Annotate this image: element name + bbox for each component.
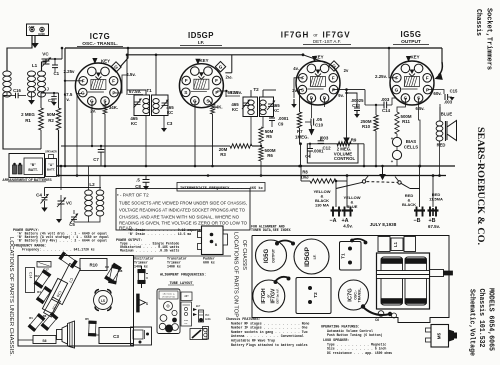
svg-text:130 MA: 130 MA (315, 203, 329, 208)
svg-text:TUBE SOCKETS ARE VIEWED FROM U: TUBE SOCKETS ARE VIEWED FROM UNDER SIDE … (119, 201, 247, 206)
svg-text:F: F (185, 78, 188, 83)
svg-text:R2: R2 (48, 118, 54, 123)
svg-text:or: or (313, 33, 318, 39)
svg-text:6.5v.: 6.5v. (415, 106, 424, 111)
svg-text:G: G (81, 90, 85, 95)
part R3 cyl (104, 263, 121, 283)
svg-text:I.F.: I.F. (313, 254, 317, 259)
trimmer C6 top view (378, 311, 384, 317)
svg-text:ID5GP: ID5GP (188, 31, 214, 40)
svg-text:S6: S6 (42, 339, 46, 343)
part R5b cyl (88, 321, 96, 336)
svg-text:C14: C14 (382, 108, 391, 113)
parts box (18, 256, 134, 347)
part C10b (42, 278, 67, 313)
wire R2 leads (58, 93, 60, 108)
part C3 big (99, 328, 134, 344)
svg-text:BATT.: BATT. (47, 168, 55, 172)
wire ID5GP bottom (194, 101, 196, 167)
svg-text:'B' Battery (dry 45v) . . . :: 'B' Battery (dry 45v) . . . : 2 - 6644 o… (17, 238, 107, 242)
oscillator trimmer icon (141, 266, 143, 270)
svg-text:"A": "A" (48, 163, 54, 167)
svg-text:R10: R10 (362, 124, 371, 129)
svg-text:R1: R1 (29, 316, 33, 320)
wire grid line IC7G (120, 48, 128, 67)
svg-text:L2: L2 (89, 182, 95, 187)
svg-text:LS: LS (101, 299, 105, 303)
svg-text:OSC: OSC (205, 314, 210, 317)
svg-text:READING IS GIVEN, THE VOLTAGE: READING IS GIVEN, THE VOLTAGE IS ZERO OR… (119, 220, 247, 225)
capacitor C9 (269, 117, 275, 119)
svg-text:'B' Drain . . . . . . . . 13.5: 'B' Drain . . . . . . . . 13.5 ma (128, 232, 191, 236)
tube IG5G top view (256, 240, 287, 271)
node vc (54, 58, 56, 60)
coil L1 osc winding (38, 71, 46, 76)
svg-text:2 MEG: 2 MEG (21, 112, 35, 117)
svg-text:C15: C15 (450, 89, 458, 94)
svg-text:• - PART OF T2: • - PART OF T2 (117, 193, 149, 198)
svg-text:2v.: 2v. (90, 109, 96, 114)
svg-text:.5: .5 (136, 178, 140, 183)
terminal +A (342, 209, 353, 211)
svg-text:KEY: KEY (314, 55, 323, 60)
wire osc top (42, 62, 47, 71)
resistor R3 (230, 144, 252, 148)
svg-text:ALIGNMENT FREQUENCIES:: ALIGNMENT FREQUENCIES: (160, 274, 206, 278)
wire T1 bottoms (145, 116, 147, 147)
svg-text:R10: R10 (89, 263, 98, 268)
resistor R2 (56, 108, 61, 130)
wire screen bus (127, 54, 303, 56)
svg-text:F: F (426, 76, 429, 81)
battery box (9, 154, 45, 178)
part R2 cyl (34, 270, 51, 289)
svg-text:ANT: ANT (28, 25, 34, 29)
bus chassis y166 (57, 165, 455, 167)
junction dots bus y166 (64, 165, 67, 168)
svg-text:L1: L1 (393, 241, 398, 247)
resistor 34K ID5GP (211, 104, 215, 114)
ground L1 (31, 96, 33, 101)
svg-text:TUBE LAYOUT: TUBE LAYOUT (169, 282, 192, 286)
wire IF7GH grid riser (302, 53, 305, 56)
wire T2 tops (250, 90, 252, 97)
svg-text:JULY 8,1938: JULY 8,1938 (370, 222, 397, 227)
svg-text:G: G (395, 87, 399, 92)
coil L1 secondary (28, 71, 36, 76)
svg-text:60v.: 60v. (433, 91, 441, 96)
wire right riser (454, 48, 456, 166)
alignment table rule (133, 255, 231, 257)
junction dots bus y175 (57, 174, 60, 177)
svg-text:C3: C3 (113, 334, 119, 339)
notes box (116, 189, 250, 231)
svg-text:KEY: KEY (410, 55, 419, 60)
svg-text:DET-1st A.F.: DET-1st A.F. (275, 288, 279, 303)
IF transformer T2 (243, 97, 258, 117)
svg-text:BLUE: BLUE (347, 204, 358, 209)
svg-text:VC: VC (42, 52, 49, 57)
output transformer coil (436, 121, 443, 126)
svg-text:2.25v.: 2.25v. (375, 74, 387, 79)
wire to output transformer (433, 89, 440, 91)
resistor R7 (297, 112, 301, 128)
svg-text:IG5G: IG5G (400, 30, 421, 39)
svg-text:GND: GND (38, 32, 46, 36)
capacitor C10 (310, 119, 312, 126)
part C7 (52, 263, 81, 304)
wire IF7GH S down (300, 90, 303, 112)
part R6 cyl (41, 312, 58, 330)
svg-text:KC: KC (167, 110, 174, 115)
svg-text:OF CHASSIS: OF CHASSIS (241, 240, 247, 270)
layout component dark (199, 310, 204, 322)
svg-text:4v.: 4v. (293, 66, 299, 71)
svg-text:IF7GH/IF7GV: IF7GH/IF7GV (162, 296, 176, 299)
wire IG5G left (389, 48, 397, 78)
capacitor C11 (307, 148, 313, 150)
trimmer T2 left (243, 102, 249, 104)
svg-text:R11: R11 (402, 119, 410, 124)
svg-text:2ω.: 2ω. (225, 75, 232, 80)
node c7 (91, 145, 93, 147)
svg-text:KC: KC (232, 107, 239, 112)
trimmer T1 left (135, 101, 141, 103)
wire -B lead (410, 189, 420, 208)
svg-text:F: F (332, 76, 335, 81)
svg-text:C7: C7 (93, 157, 99, 162)
wire C14 to IG5G (392, 98, 396, 105)
wire IC7G left plate (65, 80, 83, 82)
bias cells (392, 137, 401, 146)
terminal +B (428, 209, 439, 211)
tube layout tube 2 (160, 315, 167, 322)
svg-text:1400 kc: 1400 kc (167, 265, 181, 269)
svg-text:C13: C13 (352, 103, 360, 108)
IF transformer T1 (134, 95, 150, 116)
wire IF7GH top lead (275, 277, 289, 282)
part horn (57, 330, 63, 340)
svg-text:KC: KC (185, 322, 188, 325)
wire antenna lead (7, 36, 32, 72)
resistor R1 (39, 108, 44, 130)
wire blue lead (428, 96, 440, 104)
wire chassis top (362, 306, 390, 315)
ground VC2 (60, 204, 62, 219)
svg-text:R1: R1 (25, 118, 31, 123)
svg-text:2v: 2v (344, 68, 349, 73)
svg-text:IF7GH: IF7GH (281, 31, 310, 40)
svg-text:CONTROL: CONTROL (334, 156, 356, 161)
svg-text:VOLTAGE READINGS AT INDICATED: VOLTAGE READINGS AT INDICATED SOCKET PRO… (119, 208, 245, 213)
wire R5R6 (260, 143, 262, 147)
svg-text:M5: M5 (437, 332, 442, 339)
svg-text:50M: 50M (47, 112, 56, 117)
node T2 grid (225, 90, 227, 92)
tube IG5G (390, 61, 434, 105)
svg-text:4.5v.: 4.5v. (343, 224, 352, 229)
svg-text:C16: C16 (13, 88, 21, 93)
svg-text:F: F (215, 78, 218, 83)
svg-text:11.5MA: 11.5MA (429, 197, 443, 202)
svg-text:.05: .05 (316, 117, 323, 122)
svg-text:R4: R4 (37, 290, 41, 294)
capacitor C16 (15, 93, 17, 99)
part R1 cyl (59, 252, 78, 268)
svg-text:TRANSL.: TRANSL. (358, 288, 362, 303)
svg-text:Push Button Tuning (6 button): Push Button Tuning (6 button) (327, 333, 383, 337)
chassis top box (252, 236, 449, 323)
gang box in layout (181, 292, 192, 301)
svg-text:GANG: GANG (205, 318, 211, 321)
svg-text:+: + (391, 159, 394, 164)
svg-text:DC resistance . . . app. 1500: DC resistance . . . app. 1500 ohms (327, 351, 392, 355)
wire IG5G S down (419, 98, 420, 166)
svg-text:TUNER DATA,SEE INDEX: TUNER DATA,SEE INDEX (251, 228, 291, 232)
svg-text:C1: C1 (54, 71, 60, 76)
svg-text:BLACK: BLACK (402, 202, 416, 207)
plate feed arrow IG5G (439, 62, 443, 75)
resistor R10 (374, 115, 378, 131)
svg-text:C6: C6 (375, 318, 379, 322)
tube layout box (157, 289, 180, 334)
layout side arrows (193, 308, 197, 311)
speaker M5 box (431, 325, 449, 348)
oscillator coil L2 (85, 190, 93, 195)
wire IF7GH left (294, 78, 303, 98)
grid cap diamond IF7GH (329, 61, 339, 71)
transformer T2 top view (296, 278, 331, 314)
svg-text:67.5v: 67.5v (228, 90, 240, 95)
part R8 cyl (108, 265, 119, 284)
svg-text:C9: C9 (278, 122, 284, 127)
svg-text:SPEAKER: SPEAKER (45, 151, 57, 154)
svg-text:ARRANGEMENT OF BATTERIES: ARRANGEMENT OF BATTERIES (2, 178, 51, 182)
svg-text:MODELS 6054,6065: MODELS 6054,6065 (487, 288, 495, 351)
wire VC/C1 top (42, 58, 63, 60)
svg-text:R6: R6 (267, 153, 273, 158)
svg-text:R3: R3 (105, 265, 109, 269)
svg-text:34K.: 34K. (109, 105, 118, 110)
wire L2 bottom (89, 216, 101, 222)
svg-text:Schematic,Voltage: Schematic,Voltage (468, 289, 476, 356)
terminal -B (414, 209, 425, 211)
wire P to C15 (428, 90, 444, 94)
part C14 (26, 268, 35, 293)
coil L1 primary (3, 71, 11, 76)
resistor R11 (395, 112, 399, 134)
part speaker cutout (94, 291, 113, 310)
svg-text:DET.-1ST A.F.: DET.-1ST A.F. (313, 39, 341, 44)
wire left edge down (3, 96, 41, 150)
svg-text:C3: C3 (167, 121, 173, 126)
transformer T1 top view (340, 242, 362, 271)
wire top B+ bus (65, 47, 442, 49)
layout bottom boxes (190, 329, 207, 340)
svg-text:4.5v.: 4.5v. (126, 72, 135, 77)
capacitor C15 (444, 94, 446, 100)
svg-text:G: G (332, 64, 336, 69)
svg-text:C4: C4 (36, 193, 42, 198)
wire ID5GP grid riser (231, 55, 233, 73)
svg-text:BLUE: BLUE (441, 112, 453, 117)
svg-text:ID5GP: ID5GP (304, 247, 311, 267)
svg-text:CHASSIS, AND ARE TAKEN WITH NO: CHASSIS, AND ARE TAKEN WITH NO SIGNAL. W… (119, 215, 239, 220)
tube ID5GP top view (294, 239, 329, 274)
wire +B lead (432, 176, 434, 208)
capacitor C7 (98, 149, 105, 151)
svg-text:C5: C5 (69, 222, 75, 227)
wire +A lead (346, 176, 348, 208)
svg-text:OUTPUT: OUTPUT (272, 248, 276, 263)
svg-text:KC: KC (273, 108, 280, 113)
svg-text:2v.: 2v. (292, 88, 298, 93)
svg-text:G: G (114, 65, 118, 70)
svg-text:R2: R2 (35, 274, 39, 278)
wire R7 down (299, 128, 301, 144)
tube layout tube 1 (164, 302, 173, 311)
svg-text:R3: R3 (220, 152, 226, 157)
svg-text:G: G (219, 64, 223, 69)
svg-text:T2: T2 (253, 87, 259, 92)
terminal -A (331, 209, 342, 211)
svg-text:10ω: 10ω (300, 175, 309, 180)
switch (362, 180, 365, 183)
wire IG5G-ID5GP top (277, 241, 293, 244)
svg-text:LOCATIONS OF PARTS UNDER CHASS: LOCATIONS OF PARTS UNDER CHASSIS. (8, 237, 14, 356)
resistor R6 (259, 147, 263, 161)
wire R8 riser (300, 166, 302, 181)
svg-text:v.: v. (66, 97, 69, 102)
variable capacitor VC (43, 60, 50, 62)
resistor R5 (259, 127, 263, 143)
variable capacitor C5 pad (71, 216, 77, 218)
svg-text:.003: .003 (381, 97, 390, 102)
svg-text:.0001: .0001 (313, 149, 324, 154)
svg-text:Chassis 101.532: Chassis 101.532 (477, 289, 485, 348)
svg-text:C7: C7 (67, 277, 74, 285)
trans box in layout (181, 302, 192, 326)
svg-text:C12: C12 (322, 146, 331, 151)
wire IF7GH D pins (310, 98, 312, 118)
resistor R8 (310, 179, 336, 183)
wire -A lead (335, 181, 337, 207)
svg-text:R5: R5 (85, 317, 89, 321)
part S6 (33, 336, 56, 344)
part C18 (44, 297, 61, 317)
capacitor C14 (383, 102, 385, 109)
switch arrow (382, 166, 384, 174)
tube ID5GP (179, 64, 223, 108)
wire IG5G G down (397, 98, 405, 112)
variable capacitor VC2 (58, 200, 65, 202)
svg-text:C14: C14 (29, 272, 33, 278)
svg-text:−A: −A (329, 218, 336, 224)
svg-text:KEY: KEY (101, 59, 110, 64)
svg-text:IG5G: IG5G (264, 249, 270, 264)
wire T1 tops (145, 90, 147, 95)
svg-text:LOCATIONS OF PARTS ON TOP: LOCATIONS OF PARTS ON TOP (233, 232, 239, 317)
svg-text:Maximum . . . . . . .0.35 watt: Maximum . . . . . . .0.35 watts (120, 249, 179, 253)
tuning gang top view (377, 253, 430, 309)
svg-text:S: S (146, 302, 148, 306)
wire IC7G bottom pins (91, 101, 93, 146)
part R10 big (80, 259, 107, 271)
svg-text:1MEG.: 1MEG. (295, 135, 309, 140)
part C17 (37, 262, 51, 268)
svg-text:Frequency: . . . . . . . .: Frequency: . . . . . . . . 541,1720 kc (22, 247, 95, 251)
svg-text:T2: T2 (313, 292, 318, 298)
svg-text:F: F (112, 79, 115, 84)
capacitor C12 (318, 140, 325, 142)
svg-text:9v.: 9v. (338, 93, 344, 98)
svg-text:"B": "B" (30, 163, 36, 167)
svg-text:.0001: .0001 (278, 116, 289, 121)
svg-text:R9: R9 (351, 138, 357, 143)
wave trap box (131, 327, 152, 345)
svg-text:1400 kc: 1400 kc (134, 265, 148, 269)
wire 4.5 riser (126, 55, 128, 95)
coil L1 top view (378, 237, 390, 252)
wire R10 (375, 105, 377, 115)
node antenna top (31, 47, 33, 49)
box intermediate frequency (177, 183, 265, 192)
wire L2 tops (91, 165, 93, 167)
svg-text:600 kc: 600 kc (203, 261, 215, 265)
ground below ANT box (34, 36, 36, 44)
wire C16 links (6, 92, 8, 96)
loudspeaker (447, 121, 457, 141)
bus B- y175.5 (57, 175, 446, 177)
svg-text:BIAS: BIAS (406, 139, 417, 144)
tube IC7G top view (339, 280, 369, 310)
svg-text:67.5v.: 67.5v. (428, 224, 440, 229)
padder icon (137, 294, 140, 312)
svg-text:S: S (184, 90, 187, 95)
tube IF7GH top view (253, 280, 285, 312)
ground C2 (53, 99, 55, 102)
wire C10 drop (310, 125, 312, 129)
wire R9 top (333, 89, 365, 91)
svg-text:2.25v: 2.25v (64, 69, 76, 74)
svg-text:R6: R6 (43, 314, 47, 318)
svg-text:BATT.: BATT. (28, 168, 38, 172)
wire R1 leads (40, 93, 42, 108)
wire T1 top lead (352, 239, 366, 242)
terminal box ANT GND (27, 24, 49, 36)
svg-text:VC: VC (66, 201, 73, 206)
svg-text:CELLS: CELLS (404, 145, 418, 150)
svg-text:RED: RED (437, 143, 446, 148)
grid cap diamond ID5GP (215, 62, 225, 72)
battery A box (46, 159, 57, 177)
svg-text:R8: R8 (119, 269, 123, 273)
svg-text:J: J (47, 87, 50, 92)
resistor R9 (337, 142, 351, 146)
wire ID5GP plate to T2 (217, 91, 226, 97)
tube layout tube 3 (159, 323, 165, 329)
tube IC7G (75, 63, 121, 109)
ground C15 (448, 96, 452, 98)
svg-text:T1: T1 (146, 88, 152, 93)
svg-text:SEARS-ROEBUCK & CO.: SEARS-ROEBUCK & CO. (476, 127, 486, 245)
wire red lead (439, 141, 441, 176)
resistor 34K IC7G (103, 104, 107, 114)
svg-text:R5: R5 (266, 134, 272, 139)
svg-text:R7: R7 (297, 129, 303, 134)
svg-text:KC: KC (131, 121, 138, 126)
svg-text:−B: −B (413, 218, 420, 224)
